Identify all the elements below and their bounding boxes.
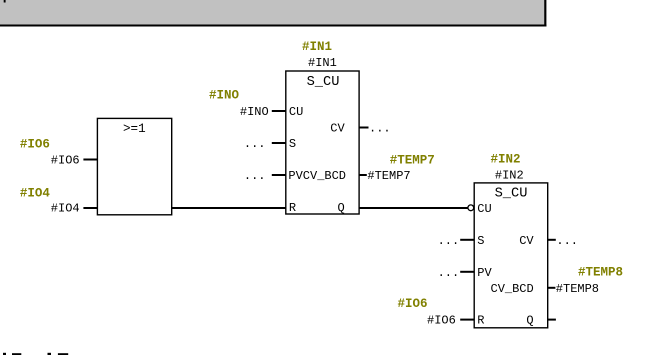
clipped next-network marks at bottom [3,353,68,355]
svg-text:...: ... [244,137,266,151]
svg-text:#IO6: #IO6 [20,138,50,152]
svg-text:...: ... [369,121,391,135]
svg-text:CU: CU [477,202,491,216]
or-gate >=1 box [97,118,171,214]
svg-text:R: R [289,201,296,215]
svg-text:CU: CU [289,105,303,119]
svg-text:R: R [477,314,484,328]
wire or-gate output to counter U1 R input [172,207,286,209]
wire U1 Q to counter U2 CU [359,207,468,209]
wire U2 CV_BCD to #TEMP8 [548,287,556,289]
svg-text:#TEMP8: #TEMP8 [578,266,623,280]
svg-text:S_CU: S_CU [495,187,528,202]
wire U2 CV output stub [548,239,556,241]
svg-text:S: S [289,137,296,151]
wire #IO6 to U2 R [460,319,474,321]
svg-text:#IN2: #IN2 [491,153,521,167]
wire U2 Q output stub [548,319,556,321]
svg-text:...: ... [556,234,578,248]
svg-text:CV_BCD: CV_BCD [491,282,534,296]
svg-text:CV: CV [330,121,345,135]
svg-text:#IN1: #IN1 [302,40,332,54]
svg-text:>=1: >=1 [123,122,146,136]
wire to U2 PV [460,271,474,273]
wire #IO4 to or-gate input 2 [83,207,97,209]
svg-text:...: ... [438,234,460,248]
svg-text:PVCV_BCD: PVCV_BCD [288,169,346,183]
wire to U2 S [460,239,474,241]
svg-text:#IO6: #IO6 [51,153,80,167]
svg-text:#IO6: #IO6 [427,314,456,328]
wire U1 CV_BCD to #TEMP7 [359,174,367,176]
svg-text:#IO4: #IO4 [51,201,80,215]
svg-text:#INO: #INO [240,105,269,119]
wire #IO6 to or-gate input 1 [83,159,97,161]
svg-text:S_CU: S_CU [307,75,340,90]
wire to U1 S [272,142,286,144]
wire U1 CV output stub [359,127,368,129]
svg-text:CV: CV [519,234,534,248]
svg-text:Q: Q [526,314,533,328]
svg-text:#INO: #INO [209,88,240,102]
svg-text:...: ... [244,169,266,183]
svg-text:#IN2: #IN2 [495,169,524,183]
svg-text:#TEMP7: #TEMP7 [367,169,410,183]
svg-text:Q: Q [338,201,345,215]
svg-text:#IO6: #IO6 [398,297,428,311]
svg-text:S: S [477,234,484,248]
svg-text:#IN1: #IN1 [308,56,337,70]
counter U1 S_CU box [286,71,359,215]
wire to U1 PV [272,174,286,176]
svg-text:#TEMP8: #TEMP8 [556,282,599,296]
counter U2 S_CU box [474,183,548,328]
svg-text:PV: PV [477,266,492,280]
wire #IN0 to U1 CU [272,110,286,112]
negation bubble at U2 CU [468,205,474,211]
svg-text:...: ... [438,266,460,280]
svg-text:#IO4: #IO4 [20,187,51,201]
title gray bar [0,0,546,27]
svg-text:#TEMP7: #TEMP7 [390,154,435,168]
